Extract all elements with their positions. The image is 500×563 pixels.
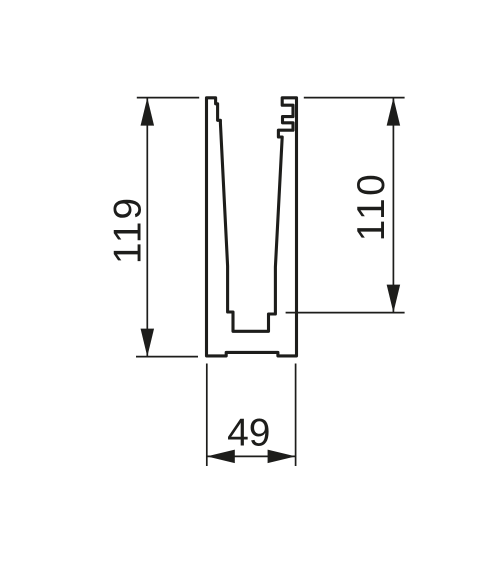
svg-text:110: 110 — [350, 172, 393, 242]
svg-text:49: 49 — [227, 411, 270, 454]
svg-text:119: 119 — [107, 196, 150, 264]
